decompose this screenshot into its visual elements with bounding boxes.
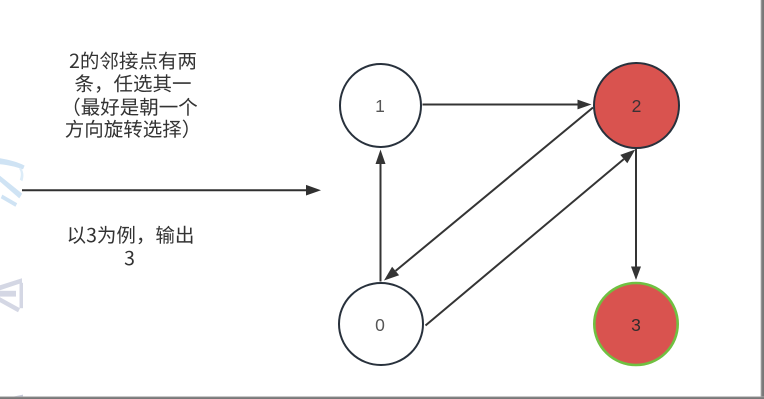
- edge 0 to 1: [376, 150, 386, 282]
- svg-text:2: 2: [632, 96, 642, 116]
- svg-text:1: 1: [375, 96, 385, 116]
- svg-text:0: 0: [375, 315, 385, 335]
- watermark fragment bottom-left: [9, 395, 24, 398]
- annotation text block 2: [69, 226, 193, 266]
- edge 1 to 2: [423, 100, 592, 110]
- node 1: [340, 64, 421, 147]
- window right border: [761, 0, 764, 399]
- watermark fragment upper-left: [0, 158, 25, 207]
- annotation text block 1: [66, 52, 198, 139]
- main horizontal arrow: [22, 185, 321, 196]
- edge 2 to 3: [631, 149, 641, 280]
- edge 2 to 0: [384, 108, 593, 281]
- window bottom border: [0, 396, 764, 399]
- node 0: [339, 283, 423, 365]
- edge 0 to 2: [426, 150, 636, 326]
- watermark fragment mid-left: [0, 278, 23, 312]
- svg-text:3: 3: [631, 315, 641, 335]
- node 2: [594, 63, 679, 148]
- node 3: [594, 283, 677, 365]
